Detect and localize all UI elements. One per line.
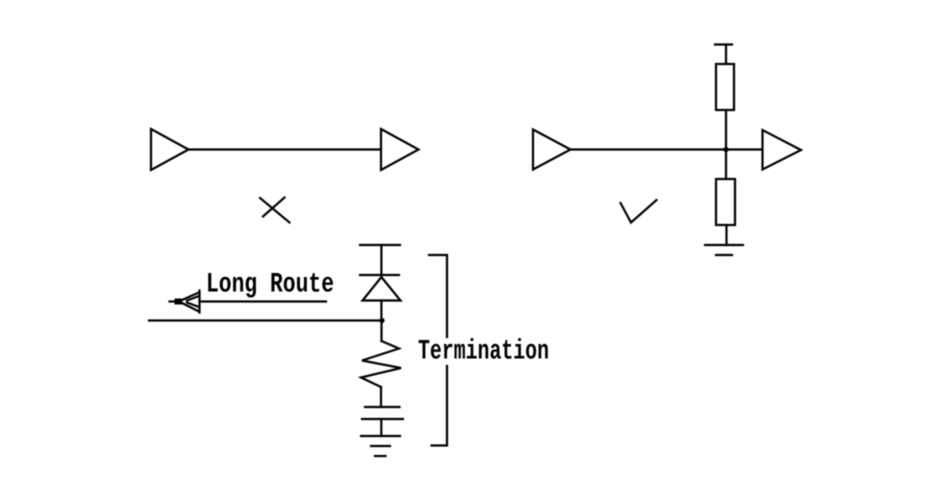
resistor R1 (pull-up): [716, 64, 734, 110]
buffer U1 (driver, top-left circuit): [151, 129, 189, 170]
buffer U2 (receiver, top-left circuit): [381, 129, 419, 170]
node A (junction dot): [723, 147, 728, 152]
resistor R3 (zigzag termination resistor): [361, 341, 401, 387]
wire diode D1 to node B: [380, 301, 382, 321]
wire R1 to power rail: [725, 45, 727, 65]
diode D1 (clamp to VCC): [360, 275, 401, 301]
wire node B to resistor R3: [380, 321, 382, 342]
wire (long route trace): [149, 319, 383, 321]
wire U3 to U4: [571, 148, 763, 150]
resistor R2 (pull-down): [716, 179, 735, 225]
bracket (termination group): [429, 255, 447, 446]
wire R3 to capacitor C1: [380, 387, 382, 407]
node B (junction dot): [379, 318, 384, 323]
power rail (VCC bar): [715, 43, 732, 45]
buffer U3 (driver, top-right circuit): [533, 130, 571, 170]
checkmark (correct): [621, 200, 657, 223]
wire node A to resistor R2: [725, 150, 727, 180]
svg-text:Long Route: Long Route: [206, 270, 334, 301]
wire R2 to ground: [725, 225, 727, 245]
arrow Long Route (open arrowhead with dot): [170, 291, 327, 313]
power rail (bottom circuit VCC bar): [360, 244, 400, 246]
label Termination: [418, 337, 549, 368]
wire power rail to diode D1: [380, 245, 382, 275]
buffer U4 (receiver, top-right circuit): [763, 130, 802, 170]
X mark (incorrect): [260, 198, 290, 223]
wire C1 to ground: [380, 419, 382, 436]
wire node A to resistor R1: [725, 110, 727, 150]
label Long Route: [206, 270, 334, 301]
capacitor C1: [362, 407, 403, 419]
ground (top-right circuit): [705, 245, 743, 255]
svg-text:Termination: Termination: [418, 337, 549, 368]
wire U1 to U2: [189, 148, 382, 150]
ground (bottom circuit): [361, 436, 400, 456]
